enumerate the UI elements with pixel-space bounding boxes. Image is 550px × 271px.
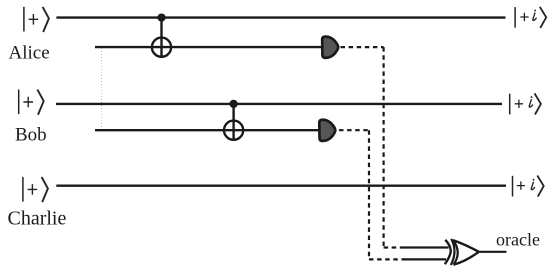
label ket |+> input Bob [19,90,44,115]
double arrow shaft top line [402,246,449,248]
cnot CX1 target [152,38,171,57]
wire Charlie q5 [56,184,506,186]
oracle output wire [479,251,507,253]
label ket |+> input Charlie [23,177,48,202]
double arrow shaft bottom line [404,258,447,260]
wire Alice q1 [56,16,505,18]
label ket |+i> output q5 [513,176,544,197]
cnot CX2 vertical wire [232,104,234,140]
svg-text:Alice: Alice [9,43,50,64]
dashed wire D2 to oracle: vertical segment [368,130,370,259]
wire Bob q3 [56,103,502,105]
double arrow head chevron [445,240,451,264]
xor gate input edge [453,240,458,265]
cnot CX2 control dot [229,100,237,108]
dashed wire D1 to oracle: bottom horizontal segment [384,246,403,248]
xor gate body [453,240,479,265]
dashed wire D2 to oracle: bottom horizontal segment [369,258,405,260]
guide dotted line (faint) [101,48,103,131]
detector D1 (Alice measurement) [322,37,338,58]
svg-text:Bob: Bob [15,125,47,146]
dashed wire D1 to oracle: horizontal segment [341,46,384,48]
label ket |+> input Alice [24,7,49,32]
wire Alice q2 [95,46,322,48]
xor gate back curve [451,239,455,265]
cnot CX1 control dot [157,13,165,21]
detector D2 (Bob measurement) [319,120,335,141]
svg-text:oracle: oracle [496,230,540,250]
svg-text:Charlie: Charlie [8,208,67,230]
dashed wire D1 to oracle: vertical segment [383,47,385,247]
dashed wire D2 to oracle: horizontal segment [339,129,369,131]
wire Bob q4 [95,129,319,131]
cnot CX1 vertical wire [160,18,162,57]
label ket |+i> output q3 [510,93,541,114]
cnot CX2 target [224,121,243,140]
label ket |+i> output q1 [515,7,546,28]
